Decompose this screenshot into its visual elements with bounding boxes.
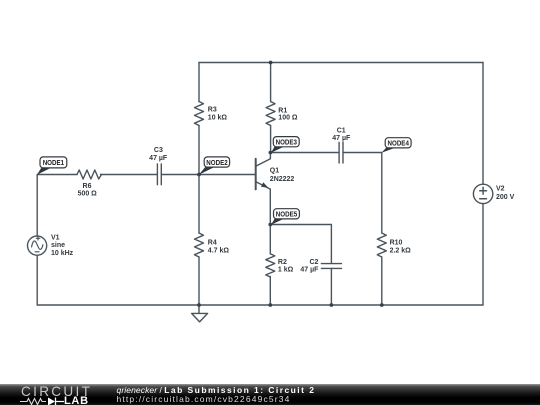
svg-text:47 µF: 47 µF bbox=[332, 135, 351, 142]
svg-text:500 Ω: 500 Ω bbox=[78, 191, 98, 198]
svg-text:NODE4: NODE4 bbox=[388, 139, 409, 148]
svg-text:4.7 kΩ: 4.7 kΩ bbox=[208, 248, 230, 255]
wire R6 to C3 bbox=[101, 174, 158, 176]
junction R10 bottom bbox=[380, 303, 384, 307]
footer watermark bar bbox=[0, 384, 540, 405]
svg-text:R2: R2 bbox=[278, 259, 287, 266]
wire node5 horizontal to C2 branch bbox=[270, 225, 331, 264]
node label NODE5 bbox=[271, 209, 299, 225]
wire C2 to bottom rail bbox=[330, 269, 332, 306]
wire emitter down to node5 bbox=[269, 189, 271, 224]
junction C2 bottom bbox=[330, 303, 334, 307]
footer title text bbox=[117, 385, 316, 395]
resistor R1 bbox=[266, 63, 275, 153]
svg-text:NODE5: NODE5 bbox=[276, 210, 297, 219]
node label NODE4 bbox=[382, 138, 412, 153]
junction node 5 bbox=[268, 223, 272, 227]
svg-text:V2: V2 bbox=[496, 186, 505, 193]
svg-text:2N2222: 2N2222 bbox=[270, 176, 295, 183]
svg-text:47 µF: 47 µF bbox=[300, 267, 319, 274]
svg-text:V1: V1 bbox=[51, 234, 60, 241]
capacitor C1 bbox=[339, 142, 343, 163]
node label NODE2 bbox=[199, 157, 230, 175]
junction R2 bottom bbox=[268, 303, 272, 307]
resistor R6 bbox=[77, 170, 102, 179]
svg-text:200 V: 200 V bbox=[496, 194, 515, 201]
svg-text:47 µF: 47 µF bbox=[149, 155, 168, 162]
svg-text:1 kΩ: 1 kΩ bbox=[278, 267, 294, 274]
svg-text:R3: R3 bbox=[208, 106, 217, 113]
wire right rail lower bbox=[482, 204, 484, 305]
wire C1 to node4 bbox=[343, 152, 382, 154]
svg-text:R10: R10 bbox=[390, 240, 403, 247]
junction top rail R1 bbox=[269, 61, 273, 65]
svg-text:10 kHz: 10 kHz bbox=[51, 250, 74, 257]
wire top rail bbox=[199, 62, 483, 64]
ground bbox=[192, 305, 208, 322]
voltage source V1 bbox=[27, 236, 46, 255]
svg-text:NODE3: NODE3 bbox=[276, 138, 297, 147]
wire C3 to base of Q1 bbox=[161, 174, 255, 176]
svg-text:2.2 kΩ: 2.2 kΩ bbox=[390, 248, 412, 255]
wire V1 to bottom rail bbox=[36, 255, 38, 305]
node label NODE3 bbox=[271, 137, 299, 153]
junction ground bbox=[197, 303, 201, 307]
svg-text:Q1: Q1 bbox=[270, 167, 279, 174]
wire node4 down to R10 bbox=[381, 153, 383, 234]
svg-text:sine: sine bbox=[51, 242, 65, 249]
voltage source V2 bbox=[473, 184, 492, 203]
resistor R10 bbox=[377, 233, 386, 305]
resistor R2 bbox=[266, 225, 275, 306]
junction node 3 bbox=[269, 151, 273, 155]
svg-text:C1: C1 bbox=[337, 127, 346, 134]
footer url text bbox=[117, 394, 291, 404]
wire node1 to R6 bbox=[37, 174, 77, 176]
svg-text:C3: C3 bbox=[154, 147, 163, 154]
capacitor C2 bbox=[321, 264, 341, 269]
transistor Q1 bbox=[256, 153, 271, 190]
capacitor C3 bbox=[157, 164, 161, 185]
junction node 2 bbox=[197, 173, 201, 177]
node label NODE1 bbox=[37, 157, 67, 175]
svg-text:10 kΩ: 10 kΩ bbox=[208, 114, 228, 121]
svg-text:NODE1: NODE1 bbox=[43, 158, 64, 167]
wire left rail upper (node1 to V1) bbox=[36, 175, 38, 237]
footer logo CIRCUIT bbox=[21, 384, 92, 399]
svg-text:R1: R1 bbox=[278, 107, 287, 114]
svg-text:100 Ω: 100 Ω bbox=[278, 115, 298, 122]
wire node3 to C1 bbox=[270, 152, 339, 154]
svg-text:R6: R6 bbox=[83, 183, 92, 190]
svg-text:NODE2: NODE2 bbox=[206, 158, 227, 167]
footer logo LAB bbox=[64, 395, 89, 405]
footer logo resistor-diode squiggle bbox=[20, 396, 68, 405]
resistor R4 bbox=[195, 175, 204, 306]
svg-text:R4: R4 bbox=[208, 240, 217, 247]
svg-text:C2: C2 bbox=[309, 259, 318, 266]
wire right rail upper bbox=[482, 63, 484, 185]
wire bottom rail bbox=[37, 304, 483, 306]
resistor R3 bbox=[195, 63, 204, 175]
